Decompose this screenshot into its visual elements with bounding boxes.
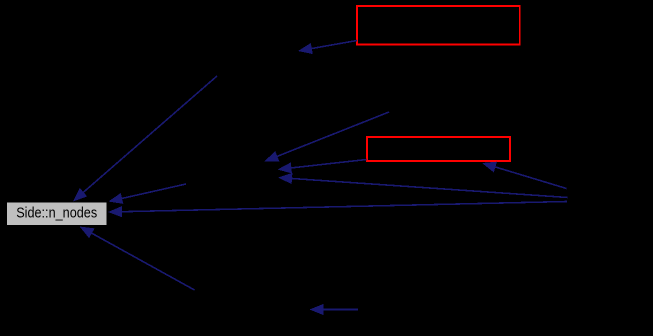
node red box top	[357, 6, 520, 45]
wire edge E7	[108, 202, 567, 218]
wire edge E5	[278, 173, 568, 198]
wire edge E1	[298, 41, 357, 55]
wire edge E9	[80, 227, 195, 291]
wire edge E2	[73, 76, 217, 202]
wire edge E4	[278, 160, 367, 174]
wire edge E10	[310, 304, 359, 315]
node red box middle	[367, 137, 510, 161]
wire edge E3	[264, 112, 389, 162]
node Side::n_nodes	[6, 202, 107, 225]
wire edge E8	[108, 184, 186, 204]
svg-text:Side::n_nodes: Side::n_nodes	[16, 205, 97, 222]
wire edge E6	[482, 162, 567, 189]
